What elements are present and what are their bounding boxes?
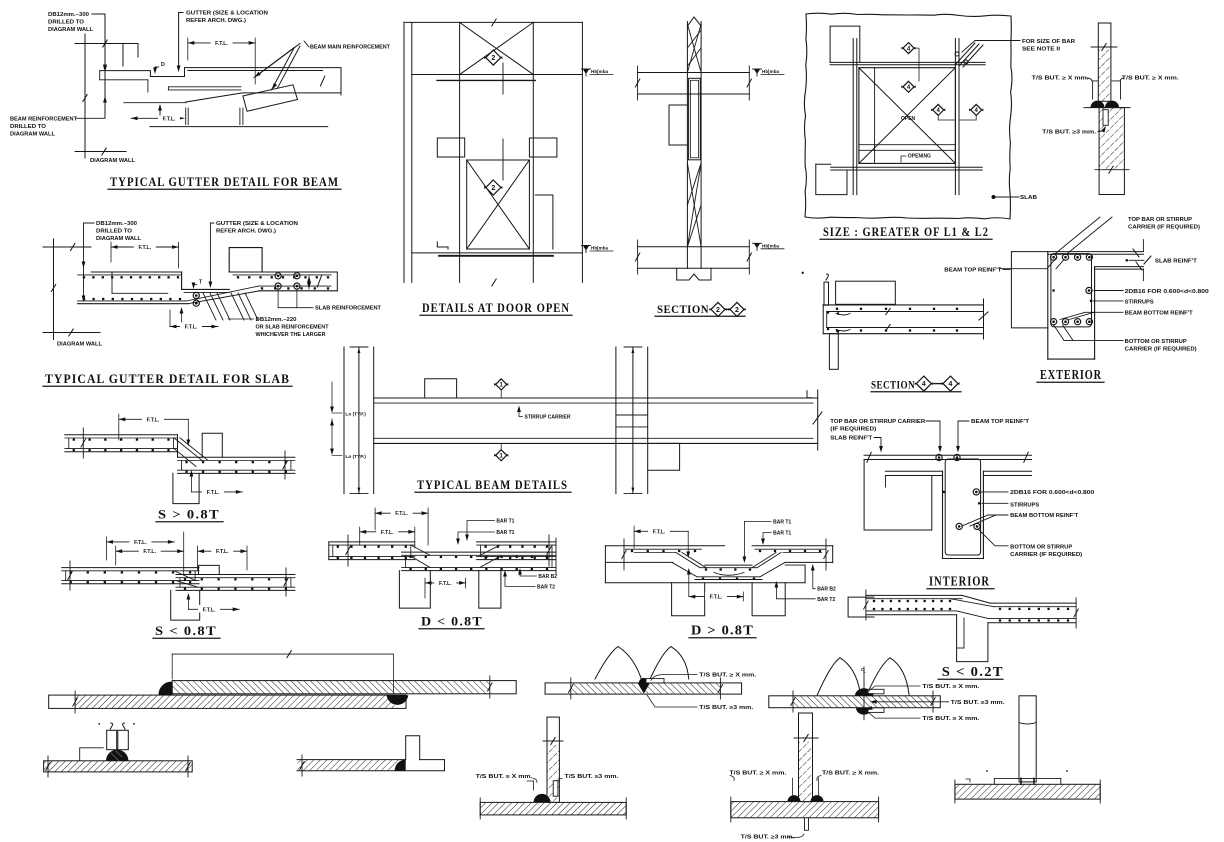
wall right edge above beam (122, 44, 124, 67)
reinf dots bottom row (836, 329, 838, 331)
svg-text:SLAB REINF'T: SLAB REINF'T (830, 436, 873, 442)
centerline xw2 (863, 667, 865, 720)
svg-text:EXTERIOR: EXTERIOR (1040, 368, 1102, 383)
middle band step verticals d08b (704, 546, 706, 565)
curb block (229, 248, 262, 272)
svg-text:SIZE : GREATER OF L1 & L2: SIZE : GREATER OF L1 & L2 (823, 225, 989, 239)
svg-text:DETAILS AT DOOR OPEN: DETAILS AT DOOR OPEN (422, 301, 570, 315)
door jambs (459, 22, 461, 282)
hinge block left (437, 138, 464, 157)
wall base widening (676, 268, 678, 280)
blob top xw2 (855, 688, 873, 695)
left petal xw2 (817, 658, 860, 695)
svg-text:FOR SIZE OF BAR: FOR SIZE OF BAR (1022, 39, 1075, 45)
bottom rebar circles ext (1051, 319, 1057, 325)
leader gutter slab (210, 223, 214, 285)
weld gap bracket (1093, 81, 1098, 99)
svg-text:T/S BUT. ≥3 mm.: T/S BUT. ≥3 mm. (951, 700, 1006, 706)
svg-text:BEAM BOTTOM REINF'T: BEAM BOTTOM REINF'T (1010, 513, 1079, 519)
right slab top reinf (233, 274, 331, 276)
svg-text:F.T.L.: F.T.L. (653, 529, 666, 535)
svg-text:DRILLED TO: DRILLED TO (10, 124, 46, 130)
datum top (583, 69, 589, 74)
sill lines (412, 252, 583, 254)
diamond 4 c (933, 104, 944, 115)
svg-text:BAR B2: BAR B2 (538, 574, 557, 580)
diagram: double V butt weld detail 2 at CL (769, 658, 1006, 722)
drop outline left d08b (672, 546, 674, 563)
right slab end vertical (336, 272, 338, 291)
diagram: exterior beam section (999, 217, 1209, 383)
svg-text:Hb[mba: Hb[mba (591, 246, 609, 251)
svg-text:S > 0.8T: S > 0.8T (158, 507, 220, 522)
wall bottom tick (75, 151, 126, 153)
svg-text:D > 0.8T: D > 0.8T (691, 624, 754, 639)
hinge block right (529, 138, 557, 157)
left band end ticks (865, 590, 867, 620)
svg-text:T/S BUT. ≥ X mm.: T/S BUT. ≥ X mm. (476, 774, 534, 780)
upper right block s08a (202, 433, 222, 457)
reinf dots top row (836, 308, 838, 310)
double vertical beam lines left (852, 39, 854, 195)
svg-text:TYPICAL BEAM DETAILS: TYPICAL BEAM DETAILS (417, 477, 568, 492)
svg-text:F.T.L.: F.T.L. (395, 511, 408, 517)
notch rect right of door (535, 195, 553, 249)
leader diamond top (502, 63, 504, 94)
dot left (802, 272, 804, 274)
mid top block (425, 379, 457, 398)
svg-text:F.T.L.: F.T.L. (147, 417, 160, 423)
leader parallelogram top carrier (1056, 217, 1100, 253)
ftl bottom dim s08b (188, 608, 239, 610)
svg-text:Hb[mba: Hb[mba (591, 69, 609, 74)
top circles int (936, 454, 942, 460)
left column dim arrows (350, 346, 368, 348)
leader beam top reinft ext (999, 268, 1047, 270)
leader DB12-220 (228, 318, 254, 320)
svg-text:F.T.L.: F.T.L. (143, 549, 156, 555)
svg-text:T/S BUT. ≥3 mm.: T/S BUT. ≥3 mm. (565, 774, 620, 780)
ftl dim s08b 1 (107, 541, 175, 543)
right band d08a (477, 541, 556, 543)
right band s02 bottom (988, 617, 1076, 619)
bar size leader diagonal bars (955, 43, 975, 65)
slab bottom lines right int (983, 470, 1031, 472)
top rebar circles ext (1051, 254, 1057, 260)
beam outline exterior (1047, 252, 1049, 360)
svg-text:DIAGRAM WALL: DIAGRAM WALL (96, 236, 142, 242)
svg-text:2: 2 (491, 55, 495, 62)
right band break s08b (285, 568, 287, 596)
left wall rect exterior (1011, 252, 1047, 328)
weld domes tf (788, 795, 801, 802)
svg-text:2: 2 (716, 307, 720, 314)
flange plates tp (994, 777, 1061, 779)
svg-text:CARRIER (IF REQUIRED): CARRIER (IF REQUIRED) (1125, 347, 1197, 353)
slab right edge ticks (1142, 240, 1144, 252)
svg-text:WHICHEVER THE LARGER: WHICHEVER THE LARGER (256, 332, 326, 338)
bar bends left d08b (676, 553, 700, 568)
diagram: tee butt weld detail left (476, 717, 627, 819)
beam top line (374, 397, 818, 399)
diamond 2 bottom (486, 180, 501, 195)
bar bends s08b (174, 571, 196, 581)
svg-text:Hb[mba: Hb[mba (762, 243, 780, 248)
sloped soffit (186, 93, 242, 102)
stirrup rect exterior (1051, 254, 1092, 327)
ftl bottom d08b (689, 596, 744, 598)
leader beam top reinft int (958, 421, 969, 450)
bar bends d08a (411, 545, 430, 555)
drilled bar diagonals B (231, 293, 244, 320)
svg-text:TOP BAR OR STIRRUP: TOP BAR OR STIRRUP (1128, 217, 1192, 223)
lap break marks (886, 309, 890, 315)
small marks tp (986, 770, 988, 772)
right break d08b (825, 539, 827, 570)
svg-text:BEAM TOP REINF'T: BEAM TOP REINF'T (944, 268, 1002, 274)
leader from DB12 label (92, 14, 105, 68)
svg-text:BEAM BOTTOM REINF'T: BEAM BOTTOM REINF'T (1125, 311, 1194, 317)
svg-text:2: 2 (735, 307, 739, 314)
slab break z (1133, 249, 1139, 257)
ftl dim s08b 3 (198, 550, 247, 552)
slab reinf dot ext (1126, 259, 1128, 261)
stem right d08b (752, 583, 785, 616)
diagonal rebar pair upper (254, 47, 295, 78)
lower stirrup verticals (185, 108, 187, 125)
weld blob right lap (387, 695, 409, 705)
svg-text:DIAGRAM WALL: DIAGRAM WALL (90, 158, 136, 164)
opening X diagonals (859, 68, 956, 164)
bracket tb1 (533, 781, 535, 790)
left slab bottom reinf (78, 300, 187, 302)
stem left d08b (672, 583, 705, 616)
stirrup dot int (978, 502, 980, 504)
slab dot and label (992, 195, 996, 199)
diamond 4 b (903, 81, 914, 92)
bottom-left beam rect (816, 164, 847, 194)
lower plate break (74, 691, 76, 713)
ftl bottom d08a (425, 582, 466, 584)
svg-text:F.T.L.: F.T.L. (203, 607, 216, 613)
svg-text:T/S BUT. ≥ X mm.: T/S BUT. ≥ X mm. (729, 771, 787, 777)
lower X pattern (687, 163, 701, 247)
diagram: corner weld detail (297, 736, 444, 776)
left band d08a (329, 541, 415, 543)
top slab lines (638, 72, 750, 74)
svg-text:T/S BUT. ≥3 mm.: T/S BUT. ≥3 mm. (1042, 130, 1097, 136)
step verticals s08a (177, 435, 179, 458)
svg-text:D: D (161, 62, 165, 68)
double horizontal beam lines bottom (831, 166, 983, 168)
beam top reinf (374, 402, 813, 404)
right slab reinf donuts (275, 273, 281, 279)
stem verticals int (942, 471, 944, 558)
svg-text:DIAGRAM WALL: DIAGRAM WALL (48, 27, 94, 33)
beam section rect (689, 78, 701, 160)
svg-text:DB12mm.–300: DB12mm.–300 (48, 12, 89, 18)
svg-text:BEAM MAIN REINFORCEMENT: BEAM MAIN REINFORCEMENT (310, 45, 391, 51)
svg-text:T/S BUT. ≥ X mm.: T/S BUT. ≥ X mm. (922, 716, 980, 722)
F.T.L. bottom dim slab (170, 326, 218, 328)
svg-text:T/S BUT. ≥ X mm.: T/S BUT. ≥ X mm. (1122, 76, 1180, 82)
small left rect s02 (848, 597, 874, 617)
svg-text:INTERIOR: INTERIOR (929, 574, 990, 589)
left band s02 top (866, 594, 962, 596)
middle left dot ext (1052, 289, 1054, 291)
svg-text:DRILLED TO: DRILLED TO (96, 229, 132, 235)
weld dome fw (106, 750, 128, 761)
wall top tick slab (43, 246, 91, 248)
vertical right edge d08b (804, 565, 806, 583)
bar tf (799, 713, 813, 802)
plate cw (297, 759, 406, 761)
right slab top (229, 271, 337, 273)
double horizontal beam lines top (830, 61, 985, 63)
svg-text:F.T.L.: F.T.L. (215, 41, 228, 47)
svg-text:DRILLED TO: DRILLED TO (48, 20, 84, 26)
right column beam pass lines (616, 414, 648, 416)
middle bar bend curve d08b (714, 573, 744, 576)
ftl bottom dim s08a (191, 491, 242, 493)
lower column (829, 334, 838, 370)
diagram: slab plan size greater of L1 and L2 (804, 13, 1075, 239)
left slab bottom (78, 303, 188, 305)
datum bottom s2 (754, 243, 760, 248)
bar bends right d08b (757, 553, 781, 568)
ftl top dim s08a (119, 418, 189, 420)
middle dropped band d08a (402, 551, 556, 553)
slab break symbol right (317, 275, 321, 287)
svg-text:BAR T2: BAR T2 (537, 584, 555, 590)
svg-text:F.T.L.: F.T.L. (163, 116, 176, 122)
plate tf (731, 802, 879, 818)
wall bottom tick slab (43, 332, 100, 334)
diagram: D greater than 0.8T detail (605, 519, 836, 638)
left band reinf d08b (625, 548, 701, 550)
wall top tick (75, 43, 138, 45)
svg-text:REFER ARCH. DWG.): REFER ARCH. DWG.) (186, 18, 246, 24)
leader diamond bottom (502, 139, 504, 180)
svg-text:SECTION: SECTION (657, 304, 709, 316)
svg-text:CARRIER (IF REQUIRED): CARRIER (IF REQUIRED) (1128, 225, 1200, 231)
bar tb1 (547, 717, 559, 802)
leader top carrier int (926, 421, 940, 450)
svg-text:(IF REQUIRED): (IF REQUIRED) (830, 427, 876, 433)
diagram: section 2-2 (635, 17, 784, 316)
slab bottom lines left int (886, 470, 943, 472)
leader slab reinft ext (1129, 259, 1144, 261)
hook bottom left (437, 242, 448, 249)
leader t/s 3mm (1098, 128, 1105, 132)
weld blob xw1 (638, 683, 651, 694)
leader beam main reinf (304, 41, 309, 47)
plate xw1 (545, 683, 742, 694)
right band s08a (178, 456, 295, 458)
leader fw (80, 748, 104, 761)
slab thickness dim (308, 276, 310, 289)
svg-text:GUTTER (SIZE & LOCATION: GUTTER (SIZE & LOCATION (216, 221, 298, 227)
svg-text:SECTION: SECTION (871, 378, 915, 392)
ftl dim s08b 2 (116, 550, 184, 552)
diamond 4 a (903, 43, 914, 54)
plate tp (955, 784, 1100, 799)
right break section 4-4 (983, 299, 985, 339)
diagram: double fillet tee weld detail (729, 713, 879, 841)
opening inner horizontal (859, 144, 956, 146)
svg-text:2DB16 FOR 0.600<d<0.800: 2DB16 FOR 0.600<d<0.800 (1125, 289, 1209, 295)
plate tb1 (480, 802, 626, 815)
right slab bottom (259, 290, 337, 292)
double vertical beam lines right (954, 39, 956, 195)
left band s08b (62, 567, 199, 569)
wall vertical slab (53, 239, 55, 340)
lower left block s08a (173, 473, 199, 503)
diagram: vertical bar butt splice detail (1032, 23, 1180, 195)
svg-text:BEAM TOP REINF'T: BEAM TOP REINF'T (971, 419, 1030, 425)
diamond 1 bottom (496, 450, 507, 461)
top-left beam rect (830, 26, 860, 62)
channel reinf donuts (193, 292, 199, 298)
opening square (859, 68, 956, 164)
wall inner vertical (104, 14, 106, 118)
svg-text:BAR T1: BAR T1 (496, 519, 514, 525)
tilted reinforcement block (243, 85, 298, 112)
leader flag rects xw2 (868, 689, 884, 694)
left end bar (824, 282, 829, 305)
middle circle ext (1086, 287, 1092, 293)
stirrup rect int (945, 459, 980, 555)
bars above fw (107, 730, 117, 749)
bracket lines tf (792, 778, 794, 795)
right band s08b (176, 574, 295, 576)
slab bottom lines ext (1095, 266, 1144, 268)
upper plate break (489, 676, 491, 698)
svg-text:CARRIER (IF REQUIRED): CARRIER (IF REQUIRED) (1010, 552, 1082, 558)
dim bracket lap (172, 653, 393, 655)
datum bottom (583, 246, 589, 251)
svg-text:DB12mm.–300: DB12mm.–300 (96, 221, 137, 227)
svg-text:DB12mm.–220: DB12mm.–220 (256, 317, 297, 323)
left band break s08a (82, 428, 84, 458)
left drop rect int (885, 476, 887, 488)
right end ticks d08a (548, 535, 550, 566)
svg-text:SLAB REINF'T: SLAB REINF'T (1155, 258, 1198, 264)
beam right end (340, 68, 342, 95)
upper bar hatch (1099, 50, 1111, 101)
right column verticals (615, 347, 617, 494)
diagram: typical beam details (330, 347, 822, 494)
opening inner vertical (874, 68, 876, 164)
svg-text:T/S BUT. ≥ X mm.: T/S BUT. ≥ X mm. (1032, 76, 1090, 82)
svg-text:Hb[mba: Hb[mba (762, 69, 780, 74)
leader slab reinft int (874, 438, 881, 451)
arrow up into beam (159, 106, 161, 115)
svg-text:T/S BUT. ≥ X mm.: T/S BUT. ≥ X mm. (922, 684, 980, 690)
diamond 1 top (496, 379, 507, 390)
upper bar break tick (1091, 46, 1117, 48)
wall outer verticals (403, 22, 405, 282)
bottom F.T.L. dimension (131, 117, 184, 119)
left band s08a (65, 434, 178, 436)
blob bottom xw2 (856, 708, 872, 715)
diamond 2 top (486, 50, 501, 65)
diagram: S less than 0.8T detail (62, 532, 295, 638)
weld blob left lap (158, 682, 172, 696)
corner mark (807, 391, 812, 398)
lap rect tb1 (553, 781, 558, 797)
slab top lines ext (1048, 251, 1144, 253)
bottom slab lines (638, 246, 750, 248)
svg-text:SLAB: SLAB (1020, 195, 1037, 201)
bar bends s08a (174, 438, 202, 461)
left band end and break d08a (328, 542, 330, 560)
block right d08a (479, 571, 501, 609)
svg-text:BAR T2: BAR T2 (817, 597, 835, 603)
beam bottom reinf (374, 437, 813, 439)
weld cw (395, 760, 406, 771)
right band s02 top (990, 602, 1076, 604)
svg-text:F.T.L.: F.T.L. (134, 540, 147, 546)
left band s02 bottom (866, 610, 957, 612)
svg-text:STIRRUPS: STIRRUPS (1010, 503, 1039, 509)
upper right block s08b (199, 565, 220, 574)
upper plate lap (172, 681, 516, 694)
diagram: S greater than 0.8T detail (65, 414, 295, 522)
svg-text:BEAM REINFORCEMENT: BEAM REINFORCEMENT (10, 117, 78, 123)
right band end ticks (1075, 598, 1077, 628)
outer slab outline d08b (605, 545, 724, 547)
svg-text:F.T.L.: F.T.L. (439, 581, 452, 587)
beam left lines (100, 79, 148, 81)
beam right break (817, 390, 819, 450)
lap block s08b (171, 590, 200, 620)
right petal xw1 (649, 647, 688, 681)
svg-text:STIRRUP CARRIER: STIRRUP CARRIER (525, 415, 571, 421)
svg-text:S < 0.2T: S < 0.2T (942, 664, 1004, 679)
lower bar lap rect (1103, 110, 1108, 126)
top curb block (836, 281, 896, 304)
svg-text:BAR T1: BAR T1 (496, 530, 514, 536)
svg-text:F.T.L.: F.T.L. (381, 530, 394, 536)
leader bottom carrier int (978, 529, 1008, 546)
diagram: fillet weld with bars detail (44, 723, 193, 777)
weld dome tb1 (534, 794, 551, 803)
plate xw2 (769, 696, 941, 708)
bar tp (1019, 696, 1036, 782)
diagram: interior beam section (830, 419, 1094, 589)
svg-text:2: 2 (491, 185, 495, 192)
diamond 4 d (971, 104, 982, 115)
svg-text:GUTTER (SIZE & LOCATION: GUTTER (SIZE & LOCATION (186, 11, 268, 17)
middle dropped band d08b (705, 564, 752, 566)
stub below tf (805, 818, 809, 831)
svg-text:TYPICAL GUTTER DETAIL FOR SLAB: TYPICAL GUTTER DETAIL FOR SLAB (45, 371, 290, 386)
right lower block (648, 443, 680, 470)
top lintel line (412, 74, 583, 76)
svg-text:T/S BUT. ≥ X mm.: T/S BUT. ≥ X mm. (822, 771, 880, 777)
lower bar break tick (1095, 169, 1129, 171)
svg-text:T/S BUT. ≥3 mm.: T/S BUT. ≥3 mm. (699, 705, 754, 711)
stub cw (406, 736, 420, 760)
left slab top reinf (78, 274, 182, 276)
arrow up under channel (181, 310, 183, 322)
beam bottom line (150, 126, 328, 128)
svg-text:BAR T1: BAR T1 (773, 531, 791, 537)
slab reinf leader lines (277, 289, 279, 308)
joint line (1084, 107, 1130, 109)
svg-text:BOTTOM OR STIRRUP: BOTTOM OR STIRRUP (1125, 339, 1187, 345)
